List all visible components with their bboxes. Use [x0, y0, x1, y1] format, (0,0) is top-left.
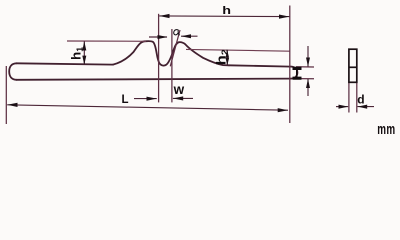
svg-text:L: L [122, 94, 129, 106]
svg-text:d: d [357, 92, 364, 106]
svg-text:mm: mm [377, 121, 395, 137]
svg-text:H: H [290, 65, 304, 81]
svg-text:h: h [222, 3, 231, 16]
svg-text:w: w [173, 82, 185, 97]
svg-text:h2: h2 [215, 49, 229, 65]
svg-text:h1: h1 [69, 47, 85, 60]
